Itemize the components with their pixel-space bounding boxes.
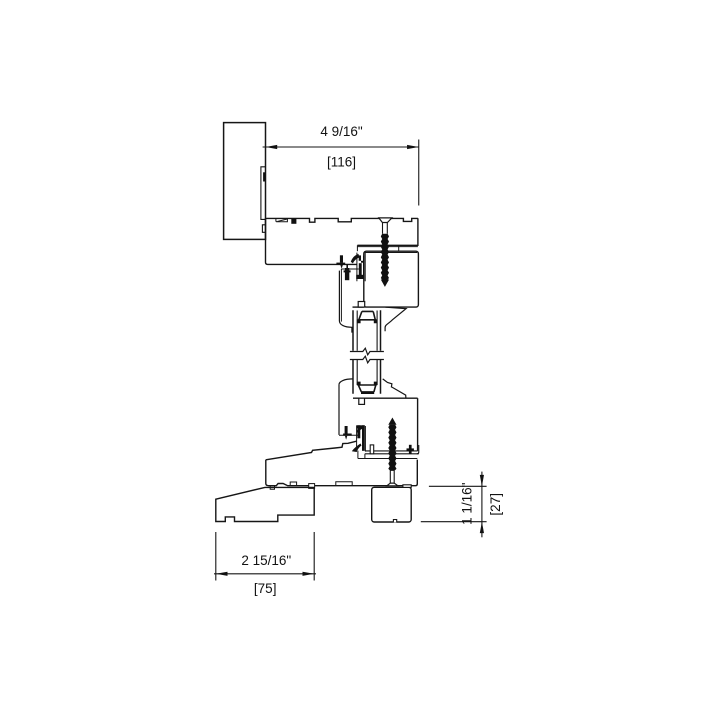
top rail right chamfer xyxy=(385,307,406,331)
sash box right corner to flange xyxy=(417,445,419,454)
head cluster channel walls xyxy=(357,253,365,282)
dim top line xyxy=(263,146,419,148)
bottom box top-right tab xyxy=(403,485,411,488)
head cluster D foot xyxy=(356,275,364,279)
head frame right edge and bottom-right xyxy=(357,218,418,245)
glass unit lower: inner pane lines xyxy=(357,360,377,385)
sill flange stand-up tab xyxy=(370,445,374,454)
head cluster D upper mid bar xyxy=(359,255,361,260)
top sash left chamfer xyxy=(339,321,352,333)
head clip fastener B stem xyxy=(346,264,348,268)
sill cluster F right bar xyxy=(362,425,365,451)
head cluster D central bar xyxy=(359,263,362,276)
dim right top arrow xyxy=(480,475,484,486)
glass unit upper: inner pane lines xyxy=(357,311,377,351)
sill nose piece xyxy=(216,487,314,521)
wall buck rectangle xyxy=(224,123,266,240)
sill bottom edge xyxy=(268,460,417,486)
sill cluster F left bar xyxy=(357,425,360,438)
svg-text:[27]: [27] xyxy=(488,493,503,516)
head clip fastener B bar xyxy=(344,270,351,272)
sill tab up 2 xyxy=(309,484,315,489)
head hook C xyxy=(351,254,360,264)
break line lower xyxy=(350,356,384,363)
head clip fastener B body xyxy=(345,268,349,280)
sill left edge xyxy=(266,460,268,486)
sill sloped top surface xyxy=(266,441,357,460)
top sash shoulder ledge xyxy=(341,268,358,270)
screw S2 threads xyxy=(388,425,396,471)
head frame left end step xyxy=(356,245,358,251)
weep wedge diagonal xyxy=(277,219,287,222)
bottom sash shoulder ledge xyxy=(339,434,358,436)
top sash inner top line xyxy=(365,252,418,254)
glazing wedge bottom xyxy=(358,385,376,392)
top sash left wall outer xyxy=(338,271,340,321)
weep wedge notch xyxy=(276,219,288,222)
svg-text:[75]: [75] xyxy=(254,581,277,596)
top sash left wall inner xyxy=(340,269,342,322)
small clip on wall below frame xyxy=(262,225,265,233)
head clip fastener A bar xyxy=(336,263,345,265)
dim bottom right arrow xyxy=(303,572,315,576)
head frame top edge with dips xyxy=(266,218,418,222)
head cluster D tick xyxy=(361,261,364,263)
glazing wedge bottom hatch xyxy=(361,392,374,394)
bottom sash left chamfer xyxy=(339,379,353,385)
top rail kerf tab xyxy=(358,302,365,308)
bottom box v-notch xyxy=(393,520,396,523)
dim right extension line upper xyxy=(429,485,487,487)
sill clip fastener E stem xyxy=(345,426,348,434)
screw S1 threads xyxy=(381,234,389,280)
bottom sash left wall xyxy=(338,385,340,435)
glass unit upper: outer pane lines xyxy=(353,310,381,351)
sill clip fastener E tip xyxy=(345,436,347,440)
sill flange bottom line xyxy=(358,458,417,460)
dim right bottom arrow xyxy=(480,522,484,533)
dim bottom extension lines xyxy=(216,532,314,581)
sill flange dark fastener bar xyxy=(407,448,414,450)
sill cluster F top cap xyxy=(357,425,365,428)
sill step section xyxy=(336,482,352,486)
head frame left jamb leg xyxy=(266,218,357,264)
glazing wedge top xyxy=(359,311,376,319)
head deep notch (filled) xyxy=(291,219,296,224)
dim bottom left arrow xyxy=(216,572,228,576)
bottom rail top edge xyxy=(353,397,418,399)
dim right extension line lower xyxy=(421,521,487,523)
sill flange step verticals xyxy=(358,451,365,459)
sill hanging block xyxy=(270,486,274,490)
dim top left arrow xyxy=(266,145,278,149)
dim top right arrow xyxy=(407,145,419,149)
break line upper xyxy=(350,348,384,355)
glazing wedge bottom corner blobs xyxy=(357,382,377,386)
bottom sash bottom edge xyxy=(365,450,418,452)
sill flange top line xyxy=(365,453,419,455)
bottom sash right edge xyxy=(417,398,419,451)
sill tab up 1 xyxy=(290,482,296,486)
nailing fin channel on wall face xyxy=(261,167,266,220)
screw S2 shank xyxy=(390,470,394,483)
screw S1 shank xyxy=(383,223,388,234)
screw S2 tip xyxy=(388,418,396,425)
head cluster D right thin bar xyxy=(363,256,364,279)
sealant blob in fin channel xyxy=(263,172,265,181)
dim right vertical line xyxy=(481,472,483,538)
sill hook bottom xyxy=(352,444,362,453)
top sash main chamber xyxy=(364,251,419,307)
svg-text:2 15/16": 2 15/16" xyxy=(241,553,291,568)
svg-text:4 9/16": 4 9/16" xyxy=(320,124,363,139)
sill clip fastener E bar xyxy=(343,434,352,436)
sill hook top xyxy=(356,426,362,433)
head clip fastener A stem xyxy=(340,255,343,262)
bottom rail kerf tab xyxy=(359,398,365,404)
glazing wedge top corner blobs xyxy=(357,319,377,323)
bottom accessory box xyxy=(372,487,412,522)
screw S2 head xyxy=(387,483,398,486)
sill cluster channel walls xyxy=(357,425,366,451)
dim bottom line xyxy=(214,573,316,575)
sill flange dark fastener stem xyxy=(409,445,412,454)
screw S1 head xyxy=(379,218,392,223)
glass unit lower: outer pane lines xyxy=(353,360,381,394)
dim top right extension line xyxy=(418,140,420,206)
svg-text:1 1/16": 1 1/16" xyxy=(460,482,475,525)
svg-text:[116]: [116] xyxy=(327,154,356,169)
top rail bottom edge left extension xyxy=(353,306,364,308)
head frame inner bottom line xyxy=(357,246,418,248)
head frame step tick xyxy=(398,245,400,251)
bottom rail right chamfer xyxy=(383,379,406,398)
screw S1 tip xyxy=(381,280,389,287)
head clip fastener A tip xyxy=(340,265,343,269)
